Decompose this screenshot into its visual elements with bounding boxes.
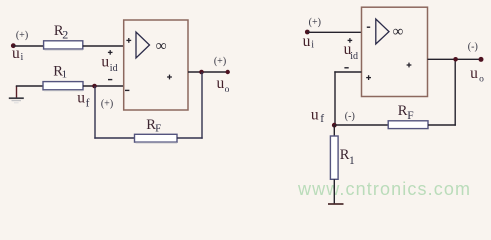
wire R1 to ground (right): [333, 179, 335, 204]
ground (left): [16, 86, 18, 98]
op-amp output polarity + marker: [167, 76, 172, 78]
op-amp - input marker: [125, 89, 129, 91]
label - of u_id: [108, 79, 112, 81]
svg-text:(-): (-): [345, 111, 355, 122]
svg-text:u: u: [77, 89, 85, 106]
wire R2 to op-amp: [83, 45, 124, 47]
svg-text:i: i: [21, 52, 24, 63]
wire down to u_f (right): [334, 71, 336, 125]
node u_f junction: [92, 84, 97, 89]
op-amp output polarity + marker (right): [407, 64, 412, 66]
svg-text:(-): (-): [468, 42, 478, 53]
wire op-amp output: [188, 71, 228, 73]
wire R1 to op-amp (lower input wire): [83, 85, 124, 87]
op-amp U2 box: [362, 7, 428, 96]
wire u_f to RF (right): [335, 124, 388, 126]
svg-text:1: 1: [349, 155, 355, 167]
wire RF to right vertical (right): [428, 124, 456, 126]
svg-text:i: i: [311, 40, 314, 51]
wire input to R2: [13, 45, 43, 47]
svg-text:u: u: [12, 45, 20, 62]
node output junction (right): [453, 57, 458, 62]
svg-text:u: u: [217, 75, 225, 92]
svg-text:R: R: [398, 103, 408, 119]
op-amp triangle: [136, 32, 150, 58]
svg-text:www.cntronics.com: www.cntronics.com: [297, 179, 470, 199]
svg-text:id: id: [110, 63, 118, 74]
svg-text:f: f: [320, 113, 324, 125]
wire op-amp output (right): [428, 58, 482, 60]
svg-text:(+): (+): [309, 17, 321, 28]
svg-text:1: 1: [62, 69, 68, 81]
resistor R1: [43, 82, 83, 90]
svg-text:o: o: [225, 85, 230, 95]
wire op-amp lower input to left (right): [334, 71, 361, 73]
svg-text:(+): (+): [16, 30, 28, 41]
svg-text:o: o: [479, 75, 484, 85]
resistor R1 (right, vertical): [330, 136, 338, 179]
resistor RF (right): [388, 121, 428, 129]
svg-text:f: f: [86, 98, 90, 110]
node output terminal u_o: [226, 70, 230, 74]
wire feedback vertical (right): [454, 59, 456, 125]
node input terminal u_i: [11, 43, 16, 48]
ground (right): [328, 203, 344, 205]
wire ground to R1: [16, 85, 43, 87]
svg-text:F: F: [407, 110, 413, 122]
node output junction: [199, 70, 204, 75]
svg-text:∞: ∞: [393, 24, 404, 40]
svg-text:u: u: [470, 65, 478, 82]
wire feedback vertical: [201, 72, 203, 139]
svg-text:u: u: [311, 107, 319, 124]
label + of u_id: [108, 51, 113, 53]
label - of u_id (right): [344, 67, 348, 69]
label + of u_id (right): [348, 39, 353, 41]
op-amp + input marker: [126, 39, 131, 41]
op-amp U1 box: [124, 20, 188, 110]
svg-text:id: id: [350, 51, 358, 62]
wire to RF: [94, 137, 134, 139]
svg-text:2: 2: [62, 28, 68, 42]
op-amp - input marker (right): [367, 26, 370, 28]
node output terminal u_o (right): [479, 57, 484, 62]
op-amp triangle (right): [376, 19, 389, 44]
wire u_f junction down: [94, 86, 96, 139]
svg-text:(+): (+): [214, 56, 226, 67]
node input terminal u_i (right): [305, 30, 310, 35]
svg-text:F: F: [155, 122, 161, 134]
op-amp + input marker (right): [366, 77, 371, 79]
node u_f junction (right): [332, 123, 337, 128]
svg-text:(+): (+): [101, 98, 113, 109]
resistor R2: [44, 41, 83, 49]
wire input to op-amp (right): [307, 31, 362, 33]
svg-text:∞: ∞: [156, 37, 167, 54]
wire RF to right vertical: [177, 137, 203, 139]
resistor RF: [135, 134, 178, 142]
svg-text:u: u: [303, 33, 311, 50]
wire u_f down to R1 (right): [333, 125, 335, 136]
svg-text:u: u: [101, 54, 109, 71]
